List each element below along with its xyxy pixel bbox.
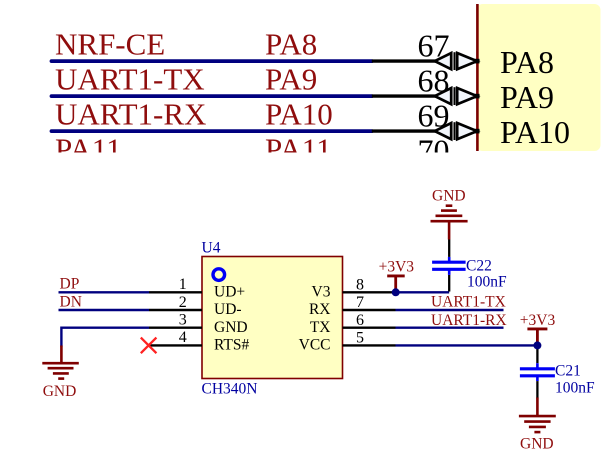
svg-text:1: 1: [179, 276, 187, 293]
MCU symbol body (partial, top-right): [477, 4, 601, 151]
pin 4 RTS#: [149, 344, 202, 346]
ground symbol GND (bottom right): [519, 398, 556, 433]
svg-text:PA11: PA11: [55, 132, 122, 167]
svg-text:UD-: UD-: [214, 301, 242, 318]
svg-text:PA8: PA8: [265, 27, 317, 62]
svg-text:+3V3: +3V3: [379, 258, 415, 275]
power +3V3 (left) stem: [394, 276, 397, 292]
junction dot at VCC: [533, 341, 541, 349]
svg-text:PA8: PA8: [500, 44, 554, 80]
svg-text:PA11: PA11: [265, 132, 332, 167]
svg-text:DN: DN: [60, 293, 82, 310]
svg-text:+3V3: +3V3: [520, 312, 556, 329]
svg-text:UD+: UD+: [214, 284, 245, 301]
wire pin3 to ground vertical: [60, 327, 62, 347]
pin 3 GND: [149, 327, 202, 329]
power +3V3 (right) stem: [536, 329, 539, 346]
no-connect X on pin 4: [141, 338, 157, 354]
svg-text:69: 69: [418, 98, 450, 134]
pin 67 line: [372, 59, 436, 62]
svg-text:UART1-TX: UART1-TX: [431, 294, 506, 311]
pin 7 RX: [343, 309, 396, 311]
svg-text:GND: GND: [43, 383, 77, 400]
svg-text:C21: C21: [555, 362, 581, 379]
svg-text:67: 67: [418, 28, 450, 64]
svg-text:RX: RX: [309, 301, 331, 318]
capacitor C21: [520, 345, 555, 398]
svg-text:2: 2: [179, 294, 187, 311]
wire junction to C22: [396, 291, 450, 293]
junction dot at pin 8: [392, 288, 400, 296]
MCU symbol left border: [476, 4, 479, 151]
capacitor C22: [432, 240, 466, 292]
wire DP: [59, 291, 150, 293]
svg-text:PA10: PA10: [265, 97, 333, 132]
pin 68 line: [372, 94, 436, 97]
wire pin3 to ground horizontal: [61, 327, 149, 329]
svg-text:RTS#: RTS#: [214, 337, 249, 354]
svg-text:C22: C22: [466, 257, 492, 274]
power +3V3 (right) bar: [527, 327, 547, 330]
svg-text:8: 8: [356, 276, 364, 293]
pin 69 line: [372, 129, 436, 132]
svg-text:TX: TX: [310, 319, 331, 336]
svg-text:GND: GND: [214, 319, 248, 336]
pin 5 VCC: [343, 344, 396, 346]
svg-text:70: 70: [418, 133, 450, 169]
svg-text:7: 7: [356, 294, 364, 311]
pin 2 UD-: [149, 309, 202, 311]
svg-text:100nF: 100nF: [555, 380, 595, 397]
svg-text:U4: U4: [202, 240, 221, 257]
pin 67 bidirectional arrow: [435, 52, 480, 70]
wire net UART1-TX: [52, 94, 372, 98]
wire UART1-TX: [396, 309, 504, 311]
svg-text:CH340N: CH340N: [202, 381, 258, 398]
svg-text:UART1-RX: UART1-RX: [55, 97, 206, 132]
wire VCC to +3V3: [396, 344, 538, 346]
power +3V3 (left) bar: [387, 274, 405, 277]
svg-text:GND: GND: [432, 188, 466, 205]
svg-text:GND: GND: [520, 436, 554, 453]
svg-text:5: 5: [356, 330, 364, 347]
svg-text:3: 3: [179, 312, 187, 329]
svg-text:68: 68: [418, 63, 450, 99]
pin 8 V3: [343, 291, 396, 293]
svg-text:PA9: PA9: [500, 79, 554, 115]
svg-text:PA9: PA9: [265, 62, 317, 97]
pin 68 bidirectional arrow: [435, 87, 480, 105]
svg-text:PA10: PA10: [500, 114, 570, 150]
svg-text:6: 6: [356, 312, 364, 329]
svg-text:UART1-TX: UART1-TX: [55, 62, 205, 97]
pin 69 bidirectional arrow: [435, 122, 480, 140]
ground symbol GND (left): [42, 346, 79, 379]
svg-text:V3: V3: [312, 284, 331, 301]
svg-text:NRF-CE: NRF-CE: [55, 27, 165, 62]
wire net UART1-RX: [52, 129, 372, 133]
wire DN: [59, 309, 150, 311]
op IC U4 body: [202, 257, 343, 379]
U4 pin-1 indicator circle: [213, 269, 225, 281]
ground symbol GND above C22 (inverted): [431, 206, 468, 240]
wire UART1-RX: [396, 327, 504, 329]
svg-text:100nF: 100nF: [467, 273, 507, 290]
wire net NRF-CE: [52, 59, 372, 63]
pin 1 UD+: [149, 291, 202, 293]
svg-text:UART1-RX: UART1-RX: [431, 312, 507, 329]
svg-text:4: 4: [179, 329, 187, 346]
svg-text:VCC: VCC: [299, 337, 331, 354]
pin 6 TX: [343, 327, 396, 329]
svg-text:DP: DP: [60, 276, 80, 293]
